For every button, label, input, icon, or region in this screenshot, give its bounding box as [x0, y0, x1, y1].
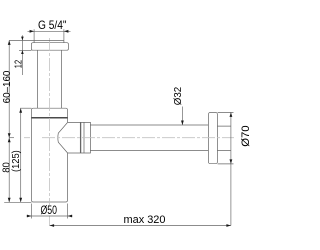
svg-text:12: 12: [14, 59, 25, 68]
svg-text:Ø32: Ø32: [172, 87, 184, 106]
svg-text:60–160: 60–160: [1, 70, 13, 103]
svg-text:(125): (125): [10, 150, 22, 172]
svg-text:max 320: max 320: [124, 214, 166, 226]
svg-text:Ø70: Ø70: [240, 125, 250, 146]
svg-text:Ø50: Ø50: [41, 205, 58, 217]
svg-text:G 5/4": G 5/4": [38, 18, 67, 32]
